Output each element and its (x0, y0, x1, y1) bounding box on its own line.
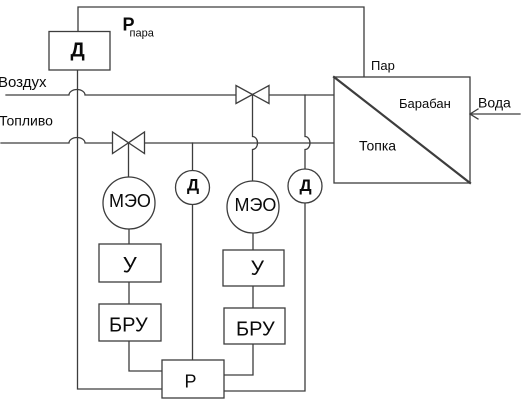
wire MEO2 to amplifier U2 (252, 233, 254, 250)
wire U2 to BRU2 (252, 286, 254, 308)
svg-text:пара: пара (130, 27, 155, 39)
block D pressure sensor box (49, 32, 110, 71)
block R regulator (162, 360, 224, 398)
block U2 amplifier (223, 250, 284, 286)
component MEO2 actuator circle (227, 181, 279, 233)
wire valve V1 stem to actuator MEO1 (128, 143, 130, 177)
svg-text:Д: Д (187, 176, 199, 195)
wire BRU1 down and right to regulator R left (129, 341, 162, 371)
svg-text:Пар: Пар (371, 58, 395, 73)
wire sensor D1 to regulator R top (192, 205, 194, 361)
svg-text:Д: Д (300, 176, 312, 195)
svg-text:Д: Д (71, 40, 85, 62)
valve V1 fuel line control valve (113, 132, 145, 154)
wire left drop from sensor D box down to regulator R (78, 70, 163, 389)
svg-text:Топка: Топка (359, 138, 396, 154)
svg-text:МЭО: МЭО (235, 195, 277, 215)
component MEO1 actuator circle (103, 177, 155, 229)
wire valve V2 stem to actuator MEO2 with hop over fuel line (253, 95, 258, 182)
wire BRU2 down and left to regulator R right (224, 344, 253, 375)
svg-text:У: У (123, 252, 138, 277)
block boiler (Barabun/Topka) (334, 77, 470, 183)
wire U1 to BRU1 (128, 282, 130, 304)
svg-text:Топливо: Топливо (0, 113, 53, 129)
svg-text:БРУ: БРУ (236, 319, 275, 341)
svg-text:Барабан: Барабан (399, 96, 451, 111)
svg-text:Воздух: Воздух (0, 74, 47, 91)
svg-text:У: У (251, 257, 265, 280)
svg-text:Вода: Вода (478, 95, 511, 111)
svg-text:БРУ: БРУ (109, 315, 148, 337)
wire top feedback from sensor D to boiler steam outlet (78, 7, 364, 77)
block BRU2 (224, 308, 285, 344)
wire boiler diagonal divider (334, 77, 470, 183)
block U1 amplifier (99, 244, 161, 282)
wire air line tap down to sensor D2 with hop over fuel line (305, 95, 310, 169)
wire MEO1 to amplifier U1 (128, 229, 130, 244)
component D1 sensor circle (176, 171, 210, 205)
wire sensor D2 down and left to regulator R right (224, 203, 305, 391)
svg-text:Р: Р (185, 372, 197, 392)
wire fuel line tap down to sensor D1 (192, 143, 194, 171)
block BRU1 (99, 304, 161, 341)
wire fuel supply line (1, 138, 334, 144)
svg-text:МЭО: МЭО (109, 191, 151, 211)
valve V2 air line control valve (236, 86, 269, 104)
wire air supply line (6, 90, 334, 96)
wire water inlet arrow (470, 109, 520, 119)
component D2 sensor circle (288, 169, 322, 203)
